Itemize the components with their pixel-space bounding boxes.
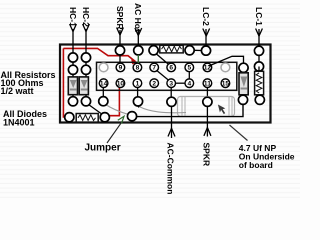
4.7uf arrow line [230,125,248,141]
pin 7 [150,63,159,72]
pad bottom-left 2 [100,113,109,122]
red trace pin10 [110,86,120,116]
svg-text:15: 15 [222,81,230,88]
wire HC-1 column stubs [72,58,74,98]
pin 11 [203,79,212,88]
svg-text:1N4001: 1N4001 [3,117,35,127]
wire pin11 to SPKR pad [206,88,208,98]
pad R-top left [149,46,158,55]
pad SPKR bottom [203,97,212,106]
unused pin top-right [221,63,230,72]
board outline [60,45,271,123]
pin 3 [167,79,176,88]
label SPKR top [115,6,125,50]
pin 15 [221,79,230,88]
svg-text:10: 10 [117,81,125,88]
pin 14 [99,79,108,88]
wire pin14 down [102,88,104,97]
unused pin top-left [99,63,108,72]
red trace top (AC hot) [63,48,135,61]
wire SPKR down + arrow [204,107,211,137]
pad jumper end [127,112,136,121]
pin 12 [203,63,212,72]
diode D3 [239,73,248,95]
red trace arrowhead at pin 8 [131,59,137,64]
bottom trace wire [137,105,243,117]
pad below resistor [255,95,264,104]
wire pin3 to pin4 [176,82,186,84]
diode D2 [79,77,88,95]
svg-text:7: 7 [152,65,156,72]
wire pin12 to diode pad [209,56,244,66]
wire R-top right to LC-2 pad [194,49,201,51]
pad HC-1 row A [68,53,77,62]
svg-text:of board: of board [239,160,273,170]
pad below pin 1 [133,97,142,108]
wire LC-1 pad2 to resistor [258,67,260,72]
wire pin3 to AC-Common pad [170,88,172,98]
svg-text:AC-Common: AC-Common [166,143,176,195]
pad SPKR top [115,46,124,55]
wire pin8 to AC Hot pad (green) [137,55,139,63]
svg-text:6: 6 [169,65,173,72]
jumper label arrow [107,116,124,143]
note resistors [1,70,56,96]
svg-text:11: 11 [204,81,211,88]
pad AC-Common [167,97,176,106]
pin 2 [150,79,159,88]
svg-text:AC Hot: AC Hot [133,3,143,32]
diode D1 [68,77,77,95]
IC socket outline [97,62,237,90]
svg-text:2: 2 [152,81,156,88]
pad below diode [238,95,247,104]
pin 4 [185,79,194,88]
wire HC-2 column stubs [85,58,87,98]
wire diag rowC to resistor pad [89,105,102,114]
svg-text:1: 1 [136,81,140,88]
pin 6 [167,63,176,72]
label LC-2 [201,7,211,50]
svg-text:SPKR: SPKR [201,143,211,167]
pad bottom-left [65,113,74,122]
pad row C right [81,97,90,106]
pad R-top right [185,46,194,55]
pad below pin 14 [99,97,108,106]
resistor R-right vertical [255,71,264,95]
label LC-1 [254,7,264,50]
pad row C left [68,97,77,106]
mouse cursor [218,105,225,115]
svg-text:3: 3 [169,81,173,88]
pin 8 [133,63,142,72]
svg-text:9: 9 [119,65,123,72]
wire AC-Common down + arrow [168,107,175,139]
svg-text:8: 8 [136,65,140,72]
wire pin5 to pin4 [188,72,190,79]
label HC-2 [81,7,91,58]
pad LC-2 [201,46,210,55]
wire pin1 down [137,88,139,97]
pin 9 [116,63,125,72]
svg-text:LC-2: LC-2 [201,7,211,26]
jumper wire gray [104,104,130,115]
capacitor C1 underside outline [178,97,235,117]
gray lead pad1 to capacitor [139,107,186,113]
svg-text:5: 5 [187,65,191,72]
pad AC Hot [134,46,143,55]
label AC Hot [133,3,143,50]
pad HC-2 row A [81,53,90,62]
note diodes [3,109,47,127]
resistor R-bottom [76,114,98,123]
pad diode top [239,63,248,72]
svg-text:4: 4 [187,81,191,88]
svg-text:LC-1: LC-1 [254,7,264,26]
svg-text:14: 14 [100,81,108,88]
svg-text:1/2 watt: 1/2 watt [1,86,34,96]
wire R-top-left pad to pin 6 [156,54,168,65]
pin 10 [116,79,125,88]
pin 5 [185,63,194,72]
wire pin7 to pin3 [157,71,169,81]
note capacitor [239,143,295,170]
pad HC-1 row B [68,65,77,74]
svg-text:SPKR: SPKR [115,6,125,30]
pin 1 [133,79,142,88]
wire LC-1 pads [258,55,260,62]
red trace left vertical [63,48,64,117]
label HC-1 [68,7,78,58]
pad LC-1 [254,46,263,55]
resistor R-top [160,45,183,53]
svg-text:Jumper: Jumper [85,143,121,154]
pad HC-2 row B [81,65,90,74]
pad LC-1 second [254,62,263,71]
wire pin9 to SPKR pad [119,55,121,63]
